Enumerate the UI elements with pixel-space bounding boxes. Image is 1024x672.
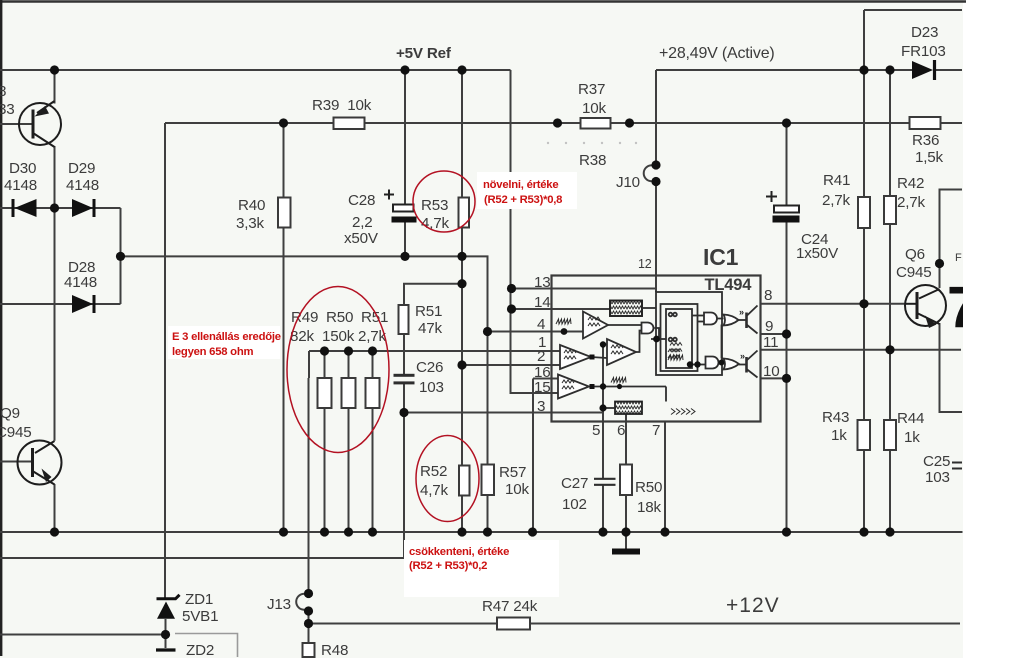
wire D30/D29 row <box>0 207 121 209</box>
svg-text:4148: 4148 <box>4 177 37 194</box>
op-amp 3 (pwm join) <box>607 339 636 365</box>
capacitor C28 <box>384 190 417 223</box>
svg-text:x50V: x50V <box>344 230 379 247</box>
wire R48 stub <box>308 624 310 644</box>
wire gnd column x533 <box>532 379 534 533</box>
transistor T2 internal <box>745 357 748 373</box>
wire Q6 collector top <box>940 190 963 289</box>
resistor R57 <box>482 465 495 496</box>
white patch behind red note 2 <box>168 326 280 359</box>
resistor R40 <box>278 198 291 228</box>
node ic inner <box>600 341 606 347</box>
capacitor C24 <box>766 191 800 223</box>
svg-text:R38: R38 <box>579 152 606 169</box>
svg-text:4148: 4148 <box>66 177 99 194</box>
wire Q8 collector vertical <box>54 70 56 104</box>
jumper J13 <box>296 594 308 610</box>
svg-text:R36: R36 <box>912 132 939 149</box>
svg-text:D23: D23 <box>911 24 938 41</box>
svg-text:csökkenteni, értéke: csökkenteni, értéke <box>409 546 509 558</box>
svg-text:2,7k: 2,7k <box>822 192 851 209</box>
svg-text:10: 10 <box>763 363 780 380</box>
svg-text:103: 103 <box>419 379 444 396</box>
op-amp 2 (err amp 1) <box>560 345 591 369</box>
ground symbol <box>612 549 640 555</box>
node dots top rails <box>50 65 59 74</box>
svg-text:1k: 1k <box>904 429 920 446</box>
op-amp 1 (DTC comp) <box>583 312 608 339</box>
resistor R48 <box>303 643 315 657</box>
red ellipse R53 <box>413 171 475 232</box>
svg-text:TL494: TL494 <box>705 276 753 294</box>
svg-text:2,2: 2,2 <box>352 214 373 231</box>
capacitor C25 <box>952 463 962 469</box>
resistor R37 <box>581 118 611 129</box>
OR gate 1 <box>724 315 739 326</box>
node pins13/14 <box>507 284 516 293</box>
white right margin <box>963 0 1024 672</box>
ic inner: hatched block bottom (pin6 ref) <box>615 402 642 415</box>
resistor R41 <box>858 197 870 228</box>
wire R40 column <box>283 123 285 198</box>
wire opamp3 top in <box>603 344 607 346</box>
wire pin4 <box>488 331 584 333</box>
node pin3 <box>399 408 408 417</box>
svg-text:R47 24k: R47 24k <box>482 598 538 615</box>
wire R57 bottom to bus <box>487 495 489 532</box>
resistor R51 (2,7k) <box>366 378 380 408</box>
diode D23 <box>912 60 935 80</box>
resistor R49 <box>318 378 332 408</box>
pin labels left <box>534 274 551 415</box>
wire D29 corner down <box>120 208 122 256</box>
wire R42/R44 column <box>889 70 891 196</box>
red ellipse trio <box>287 287 389 453</box>
wire gnd stub <box>625 532 627 549</box>
wire pin11 row <box>761 349 962 351</box>
svg-text:R41: R41 <box>823 172 850 189</box>
svg-text:11: 11 <box>763 334 778 351</box>
wire left vertical x165 to ZD1 <box>164 123 166 598</box>
node pin2 <box>457 360 466 369</box>
svg-text:Q6: Q6 <box>905 246 925 263</box>
red ellipse R52 <box>416 436 479 522</box>
svg-text:ZD2: ZD2 <box>186 642 214 659</box>
transistor T1 internal <box>745 313 748 329</box>
svg-text:33: 33 <box>0 101 15 118</box>
wire pin12 / J10 vertical lower <box>655 182 657 293</box>
svg-text:J13: J13 <box>267 596 291 613</box>
wires ff to and1 <box>692 315 704 317</box>
svg-text:3: 3 <box>537 398 545 415</box>
node J13 <box>304 589 313 598</box>
svg-text:R40: R40 <box>238 197 265 214</box>
wire +5V Ref rail <box>0 69 511 71</box>
IC1 box <box>552 276 761 422</box>
wire ff input <box>651 338 666 340</box>
pwm gate <box>642 323 654 334</box>
sawtooth mark mid <box>611 378 626 383</box>
wire pin14 <box>512 308 611 310</box>
wire pin3 <box>404 412 603 414</box>
transistor Q9 (NPN) <box>18 441 62 485</box>
white patch behind red note 3 <box>404 540 559 597</box>
wires ff to and2 <box>692 364 706 366</box>
svg-text:C27: C27 <box>561 475 588 492</box>
wire D28 row <box>0 303 121 305</box>
wire trio resistor legs <box>324 351 326 378</box>
wire Q9 emitter to bus <box>54 484 56 532</box>
svg-text:2,7k: 2,7k <box>897 194 926 211</box>
svg-text:+5V Ref: +5V Ref <box>396 45 452 62</box>
svg-text:47k: 47k <box>418 320 442 337</box>
resistor R39 <box>334 118 365 130</box>
wire pin2 <box>462 364 560 366</box>
resistor R42 <box>884 196 896 224</box>
svg-text:3,3k: 3,3k <box>236 215 265 232</box>
wire opamp2 out <box>591 357 607 358</box>
wire Q8 emitter down to diode row and Q9 <box>54 146 56 441</box>
svg-text:12: 12 <box>638 257 652 271</box>
wire pin8 row <box>761 303 907 305</box>
svg-text:10k: 10k <box>505 481 529 498</box>
capacitor C27 <box>594 479 616 485</box>
scan edge left line <box>0 0 2 656</box>
svg-text:R44: R44 <box>897 410 924 427</box>
resistor R44 <box>884 420 896 450</box>
capacitor C26 <box>394 374 415 385</box>
wire ZD1 node row <box>0 634 166 636</box>
svg-text:4: 4 <box>537 316 545 333</box>
wire pin10 stub <box>761 377 787 379</box>
resistor R52 <box>459 466 470 496</box>
op-amp 4 (err amp 2) <box>558 375 589 399</box>
ic inner: flip-flop inner box <box>666 309 692 368</box>
resistor R50 18k <box>620 465 632 496</box>
svg-text:C25: C25 <box>923 453 950 470</box>
svg-text:R50: R50 <box>326 309 353 326</box>
node dots R37 rail <box>279 118 288 127</box>
wire pin12 / J10 vertical upper <box>655 70 657 165</box>
svg-text:2: 2 <box>537 348 545 365</box>
svg-text:R51: R51 <box>415 303 442 320</box>
node right side <box>859 299 868 308</box>
svg-text:+28,49V (Active): +28,49V (Active) <box>659 45 775 62</box>
wire R37 rail <box>165 122 962 124</box>
svg-text:9: 9 <box>765 318 773 335</box>
wire +5V corner down to pins 13/14/15 <box>511 70 559 393</box>
svg-text:»: » <box>739 307 744 317</box>
wire opamp4 out drop <box>665 387 667 402</box>
wire pin13 <box>512 288 657 290</box>
transistor Q6 (NPN) <box>905 285 946 328</box>
wire opamp3 out riser <box>636 331 642 353</box>
wire pin5 column <box>602 345 604 480</box>
wire Q8 base <box>0 123 33 125</box>
svg-text:C945: C945 <box>0 424 32 441</box>
ic inner: connector box1 right <box>642 307 656 309</box>
svg-text:R52: R52 <box>420 463 447 480</box>
wire R51 47k / C26 column <box>404 284 462 305</box>
svg-text:18k: 18k <box>637 499 661 516</box>
svg-text:D29: D29 <box>68 160 95 177</box>
diode D28 <box>72 295 94 313</box>
svg-text:Q9: Q9 <box>0 405 20 422</box>
svg-text:növelni, értéke: növelni, értéke <box>483 179 558 191</box>
svg-text:R48: R48 <box>321 642 348 659</box>
svg-text:15: 15 <box>534 379 551 396</box>
svg-text:F: F <box>955 252 962 264</box>
svg-text:5VB1: 5VB1 <box>182 608 218 625</box>
node pin4 <box>483 327 492 336</box>
node y256 row <box>116 252 125 261</box>
ic inner: hatched block top (osc) <box>610 301 642 317</box>
resistor R36 <box>910 117 941 129</box>
wire C24 column <box>786 123 788 206</box>
wire pin16 corner <box>533 378 558 380</box>
svg-text:C945: C945 <box>896 264 932 281</box>
chevrons pin7 <box>671 409 695 415</box>
svg-text:(R52 + R53)*0,8: (R52 + R53)*0,8 <box>484 194 562 206</box>
ic inner: flip-flop outer box <box>656 292 722 375</box>
wire and2-or2 <box>719 362 724 364</box>
svg-text:(R52 + R53)*0,2: (R52 + R53)*0,2 <box>409 560 487 572</box>
wire opamp1 out <box>608 324 642 326</box>
svg-text:R53: R53 <box>421 197 448 214</box>
svg-text:R39 10k: R39 10k <box>312 97 372 114</box>
wire top right corner <box>864 9 962 11</box>
ic inner: hatch rows in ff <box>670 343 682 352</box>
svg-text:R50: R50 <box>635 479 662 496</box>
ZD2 gray box <box>175 634 238 658</box>
transistor Q8 (top left, PNP) <box>19 101 61 147</box>
wire ZD2 stub <box>165 635 167 649</box>
svg-text:5: 5 <box>592 422 600 439</box>
ic inner: flip-flop mid box <box>661 304 698 371</box>
svg-text:R57: R57 <box>499 464 526 481</box>
svg-text:R37: R37 <box>578 81 605 98</box>
steer vertical <box>721 325 723 359</box>
wire Q6 emitter bottom <box>940 323 963 412</box>
wire +28V rail <box>656 69 912 71</box>
svg-text:4,7k: 4,7k <box>421 215 450 232</box>
wire ZD1 to node <box>165 619 167 635</box>
wire pin7 column <box>664 422 666 533</box>
pin labels right <box>763 287 780 380</box>
resistor R50 (150k) <box>342 378 356 408</box>
OR gate 2 <box>724 359 740 370</box>
ic inner: oo marks <box>669 313 673 317</box>
zener ZD2 partial <box>156 648 176 651</box>
svg-text:J10: J10 <box>616 174 640 191</box>
wire R41/R43 column <box>863 10 865 197</box>
wire node row y256 <box>121 256 488 464</box>
wire J13 column <box>308 351 310 378</box>
svg-text:4148: 4148 <box>64 274 97 291</box>
white patch behind red note 1 <box>477 172 577 209</box>
wire C28 column <box>404 70 406 205</box>
resistor R43 <box>858 420 871 450</box>
wire J13 to +12V row <box>308 611 310 624</box>
svg-text:4,7k: 4,7k <box>420 482 449 499</box>
resistor R51 47k <box>399 305 409 334</box>
node ZD1 <box>161 630 170 639</box>
svg-text:2,7k: 2,7k <box>358 328 387 345</box>
svg-text:1x50V: 1x50V <box>796 245 839 262</box>
svg-text:10k: 10k <box>582 100 606 117</box>
wire or2-t2 <box>739 364 747 366</box>
node bus dots <box>50 527 59 536</box>
wire and1-or1 <box>717 318 724 320</box>
svg-text:»: » <box>740 351 745 361</box>
white margin cover over big 7 <box>963 255 1024 345</box>
jumper J10 <box>644 165 656 181</box>
wire pin9 stub <box>761 333 787 335</box>
diode D30 <box>13 199 37 217</box>
svg-text:1,5k: 1,5k <box>915 149 944 166</box>
white bottom margin <box>0 658 1024 672</box>
svg-text:8: 8 <box>764 287 772 304</box>
AND gate 2 <box>706 357 719 369</box>
resistor R53 <box>459 198 470 228</box>
svg-text:150k: 150k <box>322 328 355 345</box>
svg-text:C28: C28 <box>348 192 375 209</box>
svg-text:legyen 658 ohm: legyen 658 ohm <box>172 346 253 358</box>
svg-text:E 3 ellenállás eredője: E 3 ellenállás eredője <box>172 331 281 343</box>
wire trio top rail to IC pin1 <box>309 350 560 352</box>
svg-text:6: 6 <box>617 422 625 439</box>
wire Q9 base <box>0 461 33 463</box>
svg-text:C26: C26 <box>416 359 443 376</box>
wire GND bus <box>0 531 963 533</box>
wire pwm gate out <box>655 328 660 339</box>
wire pin6 column <box>625 414 627 465</box>
wire D28 corner up <box>120 256 122 304</box>
sawtooth mark pin4 <box>556 319 571 324</box>
node J10 <box>651 160 660 169</box>
diode D29 <box>72 199 94 217</box>
svg-text:R42: R42 <box>897 175 924 192</box>
scan edge top line <box>0 0 966 2</box>
svg-text:D30: D30 <box>9 160 36 177</box>
node trio tops <box>320 346 329 355</box>
AND gate 1 <box>704 313 717 325</box>
zener ZD1 <box>157 595 180 619</box>
wire opamp4 out <box>589 386 666 388</box>
svg-text:7: 7 <box>652 422 660 439</box>
svg-text:ZD1: ZD1 <box>185 591 213 608</box>
svg-text:102: 102 <box>562 496 587 513</box>
wire R53/R52 column <box>461 70 463 198</box>
wire after D23 <box>936 69 962 71</box>
svg-text:14: 14 <box>534 294 551 311</box>
resistor R47 <box>497 618 530 630</box>
pin labels bottom <box>592 422 660 439</box>
svg-text:1k: 1k <box>831 427 847 444</box>
svg-text:103: 103 <box>925 469 950 486</box>
svg-text:82k: 82k <box>290 328 314 345</box>
svg-text:FR103: FR103 <box>901 43 946 60</box>
wire or1-t1 <box>739 319 747 321</box>
wire +12V row <box>309 623 961 625</box>
svg-text:IC1: IC1 <box>703 244 739 270</box>
svg-text:R43: R43 <box>822 409 849 426</box>
svg-text:8: 8 <box>0 83 6 100</box>
svg-text:13: 13 <box>534 274 551 291</box>
node R51 top <box>457 279 466 288</box>
ic inner: box2 left wire <box>603 407 615 409</box>
svg-text:+12V: +12V <box>726 594 780 617</box>
wire C26 bottom to lower bus corner <box>0 532 404 558</box>
node diode row <box>50 203 59 212</box>
faint dotted row under R37 <box>547 142 637 144</box>
